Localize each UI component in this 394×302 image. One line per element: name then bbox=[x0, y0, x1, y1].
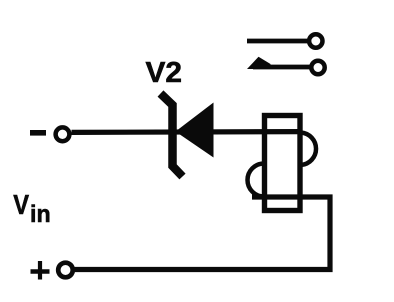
relay coil bobbin rectangle K1 bbox=[265, 116, 301, 211]
svg-text:V2: V2 bbox=[146, 57, 183, 89]
coil winding left arc bbox=[248, 164, 265, 197]
relay contact lower circle bbox=[311, 61, 324, 74]
zener diode V2 cathode bar bbox=[161, 94, 183, 177]
zener diode V2 anode triangle bbox=[176, 103, 214, 158]
relay contact upper circle bbox=[309, 34, 322, 47]
relay contact upper line bbox=[247, 39, 309, 44]
relay contact lower line bbox=[253, 65, 310, 70]
relay contact armature wedge bbox=[247, 57, 271, 69]
plus polarity mark bbox=[31, 269, 50, 274]
positive input terminal circle bbox=[58, 263, 73, 278]
svg-text:in: in bbox=[30, 201, 51, 228]
minus polarity mark bbox=[30, 130, 46, 136]
negative input terminal circle bbox=[56, 127, 70, 141]
svg-text:V: V bbox=[13, 189, 29, 220]
wire: coil bottom lead across, down right side, and bottom rail to + terminal bbox=[74, 197, 330, 270]
wire: negative rail from terminal across coil bbox=[72, 129, 303, 135]
coil winding right arc bbox=[301, 133, 316, 166]
